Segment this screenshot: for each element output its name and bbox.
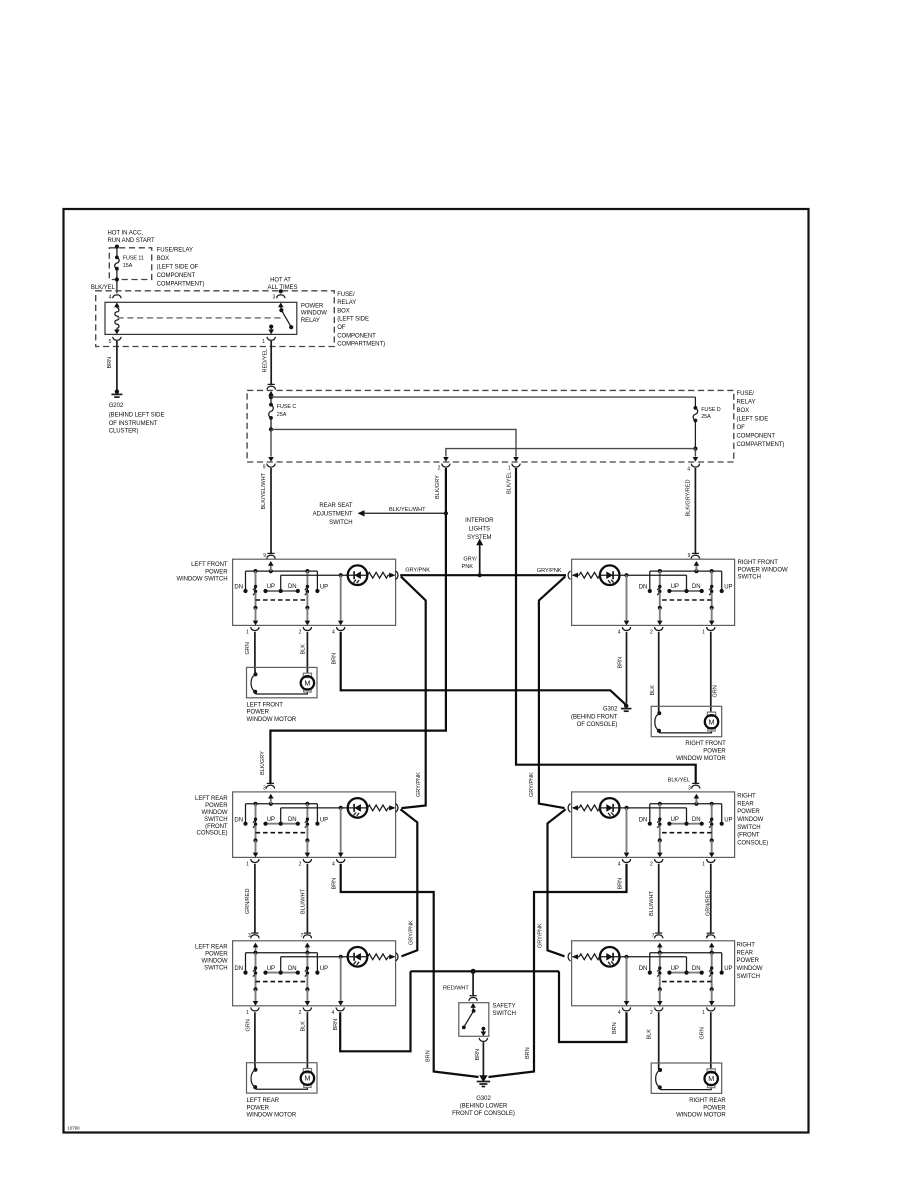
left rear power window switch lamp output	[340, 957, 342, 1002]
svg-text:RIGHT REAR: RIGHT REAR	[689, 1098, 726, 1104]
relay pin 5	[113, 337, 121, 341]
svg-text:2: 2	[299, 629, 302, 635]
chevron left rear	[396, 953, 398, 961]
left rear power window switch resistor	[368, 954, 389, 960]
right front power window switch pin arrow	[694, 569, 698, 573]
svg-text:UP: UP	[671, 817, 679, 823]
svg-text:UP: UP	[320, 817, 328, 823]
left rear power window switch pin arrows	[255, 947, 257, 953]
svg-text:4: 4	[332, 629, 335, 635]
svg-text:2: 2	[650, 1010, 653, 1016]
chevron right rear	[568, 953, 570, 961]
battery feed dot	[115, 245, 119, 249]
svg-text:INTERIOR: INTERIOR	[465, 518, 494, 524]
svg-text:GRY/PNK: GRY/PNK	[537, 568, 562, 574]
svg-text:BRN: BRN	[475, 1049, 481, 1061]
svg-text:BLK: BLK	[650, 685, 656, 696]
left front power window switch pin arrow	[269, 569, 273, 573]
svg-text:GRY/PNK: GRY/PNK	[529, 772, 535, 797]
svg-text:25A: 25A	[277, 412, 287, 418]
svg-text:POWER: POWER	[205, 803, 228, 809]
svg-text:1: 1	[702, 1010, 705, 1016]
wire GRY/PNK to left rear console switch	[401, 576, 426, 808]
wire BLK/GRY to left rear switch	[270, 468, 446, 783]
pin 1	[707, 627, 715, 631]
wire BRN rear ground bus	[411, 970, 560, 972]
wire BLK/GRY/RED to right front switch	[694, 468, 696, 553]
svg-text:4: 4	[687, 467, 690, 473]
svg-text:3: 3	[248, 933, 251, 939]
right front power window switch rocker arm 1	[710, 569, 714, 573]
wire GRN left front	[254, 632, 256, 674]
left front power window switch rocker arm 1	[253, 569, 257, 573]
svg-text:SAFETY: SAFETY	[493, 1004, 516, 1010]
wire GRN left rear	[254, 1012, 256, 1069]
svg-text:REAR: REAR	[737, 801, 754, 807]
svg-text:POWER: POWER	[737, 958, 760, 964]
svg-text:OF: OF	[737, 425, 746, 431]
svg-text:G302: G302	[476, 1096, 491, 1102]
pin 2	[303, 627, 311, 631]
svg-text:BRN: BRN	[425, 1050, 431, 1062]
svg-text:FUSE D: FUSE D	[701, 407, 721, 413]
GRY/PNK chevron left front	[396, 571, 398, 579]
svg-text:WINDOW MOTOR: WINDOW MOTOR	[676, 1113, 726, 1119]
left rear power window switch rocker arm 2	[305, 951, 309, 955]
fuse box pin 9	[268, 457, 274, 462]
wire BLU/WHT	[306, 864, 308, 933]
wire GRY/PNK illumination bus	[400, 574, 566, 576]
svg-text:LIGHTS: LIGHTS	[469, 527, 490, 533]
svg-text:1: 1	[246, 1010, 249, 1016]
wire BRN safety switch to G302	[482, 1042, 484, 1076]
svg-text:PNK: PNK	[462, 564, 474, 570]
svg-text:RIGHT: RIGHT	[737, 793, 756, 799]
pin 1	[251, 859, 259, 863]
relay coil	[116, 306, 118, 309]
fuse box feed pin	[268, 391, 274, 396]
svg-text:DN: DN	[234, 585, 243, 591]
fuse/relay box (fuse 11) dashed outline	[109, 248, 151, 280]
wire BRN right front to G302	[626, 632, 628, 704]
svg-text:SWITCH: SWITCH	[738, 575, 761, 581]
svg-text:1: 1	[262, 339, 265, 345]
svg-text:M: M	[304, 678, 310, 687]
wire BLK left front	[306, 632, 308, 674]
svg-text:M: M	[304, 1074, 310, 1083]
right rear power window switch (front console) illumination lamp	[686, 808, 688, 824]
svg-text:G202: G202	[109, 403, 124, 409]
svg-text:4: 4	[618, 629, 621, 635]
svg-text:GRY/PNK: GRY/PNK	[416, 772, 422, 797]
ground G202	[115, 389, 119, 393]
svg-text:SWITCH: SWITCH	[737, 825, 760, 831]
svg-text:COMPARTMENT): COMPARTMENT)	[157, 282, 205, 288]
svg-text:BLK/GRY/RED: BLK/GRY/RED	[686, 480, 692, 517]
relay pin 4	[113, 295, 121, 299]
left front power window switch mechanical link	[256, 599, 308, 601]
svg-text:BLK/YEL/WHT: BLK/YEL/WHT	[261, 472, 267, 509]
svg-text:(FRONT: (FRONT	[737, 833, 760, 839]
right rear power window switch pin arrows	[711, 947, 713, 953]
svg-text:DN: DN	[639, 585, 648, 591]
left front power window switch contact bus	[266, 590, 298, 592]
svg-text:ADJUSTMENT: ADJUSTMENT	[313, 512, 353, 518]
svg-text:COMPARTMENT): COMPARTMENT)	[737, 442, 785, 448]
right rear power window switch illumination lamp	[686, 957, 688, 973]
svg-text:M: M	[709, 717, 715, 726]
right rear power window switch (front console) resistor	[579, 805, 600, 811]
svg-text:WINDOW MOTOR: WINDOW MOTOR	[247, 717, 297, 723]
svg-text:25A: 25A	[701, 414, 711, 420]
svg-text:FUSE C: FUSE C	[277, 404, 297, 410]
svg-text:DN: DN	[692, 584, 701, 590]
pin 4	[622, 627, 630, 631]
right front power window switch feed bus	[650, 570, 722, 572]
left rear power window switch illumination lamp	[280, 957, 282, 973]
svg-text:LEFT REAR: LEFT REAR	[195, 796, 228, 802]
svg-text:RELAY: RELAY	[301, 318, 320, 324]
svg-text:3: 3	[706, 933, 709, 939]
ground G302 rear	[479, 1075, 488, 1082]
wire BRN right rear to ground bus	[559, 971, 627, 1042]
right front power window motor box	[651, 706, 722, 736]
relay pin 3	[277, 295, 285, 299]
svg-text:UP: UP	[320, 966, 328, 972]
svg-text:9: 9	[688, 553, 691, 559]
svg-text:POWER: POWER	[737, 809, 760, 815]
svg-text:9: 9	[263, 553, 266, 559]
fuse/relay box dashed outline	[247, 390, 734, 462]
right rear power window switch (front console) contact bus	[669, 823, 701, 825]
wire GRN right front	[710, 632, 712, 712]
svg-text:WINDOW: WINDOW	[737, 966, 763, 972]
left rear power window switch mechanical link	[256, 981, 308, 983]
svg-text:POWER: POWER	[703, 1105, 726, 1111]
svg-text:UP: UP	[724, 585, 732, 591]
pin 1	[707, 1007, 715, 1011]
svg-text:GRN: GRN	[712, 685, 718, 697]
wire BRN relay to G202	[116, 341, 118, 392]
right front power window switch illumination lamp	[686, 575, 688, 591]
svg-text:DN: DN	[639, 966, 648, 972]
svg-text:4: 4	[618, 861, 621, 867]
fuse D 25A	[694, 397, 696, 408]
svg-text:1: 1	[246, 629, 249, 635]
svg-text:7: 7	[300, 933, 303, 939]
wire BRN left rear console to G302	[341, 864, 479, 1077]
svg-text:ALL TIMES: ALL TIMES	[268, 285, 298, 291]
left front power window switch lamp output	[340, 575, 342, 621]
svg-text:RED/YEL: RED/YEL	[263, 349, 269, 373]
wire RED/WHT to safety switch	[472, 971, 474, 995]
svg-text:POWER: POWER	[247, 710, 270, 716]
left rear power window switch (front console) resistor	[368, 805, 389, 811]
left rear power window motor box	[247, 1063, 318, 1093]
svg-text:(BEHIND LEFT SIDE: (BEHIND LEFT SIDE	[109, 412, 165, 418]
pin 4	[336, 1007, 344, 1011]
svg-text:(BEHIND FRONT: (BEHIND FRONT	[571, 715, 618, 721]
right rear power window switch (front console) rocker arm 2	[658, 802, 662, 806]
svg-text:POWER: POWER	[703, 749, 726, 755]
wire fuse 11 to relay	[116, 269, 118, 294]
svg-text:HOT AT: HOT AT	[270, 277, 291, 283]
svg-text:1: 1	[702, 861, 705, 867]
svg-text:UP: UP	[671, 966, 679, 972]
wire feed to fuse 11	[116, 247, 118, 258]
svg-text:WINDOW MOTOR: WINDOW MOTOR	[676, 756, 726, 762]
wire GRY/PNK console to right rear switch	[548, 809, 566, 956]
svg-text:(FRONT: (FRONT	[205, 824, 228, 830]
svg-text:SWITCH: SWITCH	[204, 966, 227, 972]
svg-text:SWITCH: SWITCH	[737, 974, 760, 980]
svg-text:5: 5	[109, 339, 112, 345]
left front power window switch rocker arm 2	[305, 569, 309, 573]
left front power window motor box	[247, 667, 318, 697]
svg-text:BLK: BLK	[300, 644, 306, 655]
safety switch contact	[482, 1027, 486, 1031]
left front power window switch box	[233, 559, 396, 625]
right rear power window switch lamp output	[626, 957, 628, 1002]
pin 4	[337, 627, 345, 631]
svg-text:DN: DN	[288, 966, 297, 972]
right rear power window switch resistor	[579, 954, 600, 960]
svg-text:WINDOW: WINDOW	[737, 817, 763, 823]
svg-text:SWITCH: SWITCH	[493, 1011, 516, 1017]
svg-text:1: 1	[702, 629, 705, 635]
rear seat adjustment switch arrow	[361, 512, 446, 514]
right front power window switch rocker arm 2	[658, 569, 662, 573]
svg-text:1: 1	[246, 861, 249, 867]
svg-text:M: M	[708, 1074, 714, 1083]
svg-text:COMPONENT: COMPONENT	[737, 433, 776, 439]
svg-text:DN: DN	[692, 817, 701, 823]
svg-text:WINDOW SWITCH: WINDOW SWITCH	[176, 577, 227, 583]
left front power window motor armature	[303, 673, 311, 677]
svg-text:RED/WHT: RED/WHT	[443, 985, 469, 991]
svg-text:GRY/: GRY/	[463, 556, 477, 562]
svg-text:GRN: GRN	[245, 1019, 251, 1031]
svg-text:GRY/PNK: GRY/PNK	[409, 920, 415, 945]
safety switch arm	[470, 1003, 476, 1008]
svg-text:FUSE/: FUSE/	[337, 292, 355, 298]
fuse 11 15A	[115, 256, 119, 260]
svg-text:BOX: BOX	[337, 308, 350, 314]
fuse box feed rail	[271, 396, 695, 398]
svg-text:1: 1	[508, 466, 511, 472]
wire BLK/YEL/WHT to left front switch	[270, 468, 272, 553]
svg-text:BRN: BRN	[617, 657, 623, 669]
left front power window motor commutator arc	[254, 672, 258, 676]
fuse/relay box (relay) dashed outline	[96, 291, 335, 347]
pin 4	[622, 1007, 630, 1011]
svg-text:UP: UP	[267, 966, 275, 972]
fuse C 25A	[270, 397, 272, 405]
svg-text:UP: UP	[267, 817, 275, 823]
wire BLK/YEL to right rear switch	[516, 468, 696, 783]
right rear power window motor commutator arc	[658, 1068, 662, 1072]
svg-text:DN: DN	[288, 584, 297, 590]
chevron right rear console	[568, 804, 570, 812]
right rear power window switch mechanical link	[660, 981, 712, 983]
left rear power window switch rocker arm 1	[253, 951, 257, 955]
left rear power window switch (front console) mechanical link	[256, 832, 308, 834]
svg-text:UP: UP	[724, 817, 732, 823]
relay pin 3 feed dot	[279, 289, 283, 293]
svg-text:UP: UP	[724, 966, 732, 972]
wire BRN left front to G302	[341, 632, 626, 706]
svg-text:LEFT REAR: LEFT REAR	[247, 1098, 280, 1104]
svg-text:RELAY: RELAY	[337, 300, 356, 306]
svg-text:POWER: POWER	[205, 952, 228, 958]
svg-text:(LEFT SIDE OF: (LEFT SIDE OF	[157, 265, 199, 271]
fuse box pin 2	[443, 457, 449, 462]
right rear power window motor box	[651, 1063, 722, 1093]
svg-text:FUSE 11: FUSE 11	[123, 255, 144, 261]
left front power window switch illumination lamp	[280, 575, 282, 591]
pin 1	[251, 1007, 259, 1011]
svg-text:4: 4	[332, 861, 335, 867]
pin 4	[337, 859, 345, 863]
svg-text:UP: UP	[267, 584, 275, 590]
svg-text:COMPARTMENT): COMPARTMENT)	[337, 342, 385, 348]
pin 2	[655, 1007, 663, 1011]
svg-text:15A: 15A	[123, 263, 133, 269]
svg-text:POWER: POWER	[247, 1105, 270, 1111]
pin 2	[303, 1007, 311, 1011]
svg-text:BLK/YEL: BLK/YEL	[91, 285, 116, 291]
svg-text:FUSE/: FUSE/	[737, 391, 755, 397]
wire RED/YEL	[270, 341, 272, 384]
wire BLK right front	[658, 632, 660, 713]
svg-text:GRN: GRN	[245, 642, 251, 654]
svg-text:BRN: BRN	[333, 1019, 339, 1031]
wire BLK right rear	[658, 1012, 660, 1070]
svg-text:7: 7	[652, 933, 655, 939]
svg-text:OF CONSOLE): OF CONSOLE)	[577, 722, 618, 728]
right rear power window motor armature	[707, 1069, 715, 1073]
left rear power window switch feed bus	[246, 952, 318, 954]
safety switch output pin	[479, 1038, 487, 1042]
left rear power window switch (front console) feed bus	[246, 803, 318, 805]
wire GRN/RED	[254, 864, 256, 933]
right front power window motor commutator arc	[657, 711, 661, 715]
left rear power window motor armature	[303, 1069, 311, 1073]
right front power window switch lamp output	[626, 575, 628, 621]
right rear power window switch box	[572, 941, 735, 1006]
svg-text:RIGHT: RIGHT	[737, 943, 756, 949]
svg-text:BLU/WHT: BLU/WHT	[300, 889, 306, 914]
svg-text:BLK/YEL: BLK/YEL	[506, 472, 512, 494]
svg-text:CLUSTER): CLUSTER)	[109, 428, 139, 434]
left rear power window switch (front console) rocker arm 1	[253, 802, 257, 806]
svg-text:2: 2	[650, 861, 653, 867]
svg-text:LEFT FRONT: LEFT FRONT	[247, 702, 284, 708]
GRY/PNK chevron right front	[568, 571, 570, 579]
svg-text:POWER: POWER	[301, 303, 324, 309]
svg-text:(LEFT SIDE: (LEFT SIDE	[737, 416, 769, 422]
left rear power window switch (front console) pin arrow	[269, 802, 273, 806]
svg-text:CONSOLE): CONSOLE)	[197, 831, 228, 837]
pin 1	[251, 627, 259, 631]
svg-text:BRN: BRN	[107, 357, 113, 369]
fuse D output rail	[694, 421, 696, 449]
svg-text:COMPONENT: COMPONENT	[337, 333, 376, 339]
left front power window switch resistor	[368, 572, 389, 578]
svg-text:WINDOW: WINDOW	[301, 311, 327, 317]
right rear power window switch (front console) feed bus	[650, 803, 722, 805]
svg-text:UP: UP	[671, 584, 679, 590]
svg-text:COMPONENT: COMPONENT	[157, 273, 196, 279]
svg-text:10790: 10790	[68, 1126, 81, 1131]
svg-text:(BEHIND LOWER: (BEHIND LOWER	[460, 1104, 508, 1110]
ground G302 front	[624, 704, 628, 708]
wire BRN right rear console to G302	[489, 864, 627, 1077]
right rear power window switch (front console) lamp output	[626, 808, 628, 853]
svg-text:GRY/PNK: GRY/PNK	[405, 567, 430, 573]
wire GRN right rear	[710, 1012, 712, 1069]
svg-text:OF: OF	[337, 325, 346, 331]
svg-text:DN: DN	[288, 817, 297, 823]
svg-text:BRN: BRN	[525, 1047, 531, 1059]
right rear power window switch rocker arm 1	[710, 951, 714, 955]
wire GRN/RED right	[710, 864, 712, 933]
left rear power window motor commutator arc	[254, 1068, 258, 1072]
svg-text:3: 3	[263, 786, 266, 792]
svg-text:BLK/GRY: BLK/GRY	[260, 751, 266, 775]
page border frame	[64, 209, 809, 1133]
svg-text:CONSOLE): CONSOLE)	[737, 841, 768, 847]
svg-text:FUSE/RELAY: FUSE/RELAY	[157, 248, 193, 254]
left rear power window switch (front console) contact bus	[266, 823, 298, 825]
svg-text:DN: DN	[234, 817, 243, 823]
svg-text:BRN: BRN	[617, 878, 623, 890]
svg-text:LEFT FRONT: LEFT FRONT	[191, 562, 228, 568]
right rear power window switch rocker arm 2	[658, 951, 662, 955]
svg-text:BRN: BRN	[332, 653, 338, 665]
svg-text:POWER WINDOW: POWER WINDOW	[738, 567, 788, 573]
right rear power window switch (front console) mechanical link	[660, 832, 712, 834]
relay pin 1	[267, 337, 275, 341]
left front power window switch feed bus	[246, 570, 318, 572]
svg-text:3: 3	[688, 786, 691, 792]
relay link dashed	[118, 317, 282, 319]
pin 4	[622, 859, 630, 863]
svg-text:BRN: BRN	[332, 878, 338, 890]
relay contact to pin 1	[269, 325, 273, 329]
right front power window switch box	[572, 559, 735, 625]
right rear power window switch feed bus	[650, 952, 722, 954]
right front power window switch resistor	[579, 572, 600, 578]
svg-text:GRN/RED: GRN/RED	[705, 891, 711, 916]
left rear power window switch box	[233, 941, 396, 1006]
left rear power window switch contact bus	[266, 972, 298, 974]
svg-text:GRN/RED: GRN/RED	[245, 889, 251, 914]
svg-text:(LEFT SIDE: (LEFT SIDE	[337, 317, 369, 323]
svg-text:GRN: GRN	[700, 1027, 706, 1039]
pin 1	[707, 859, 715, 863]
svg-text:LEFT REAR: LEFT REAR	[195, 945, 228, 951]
pin 2	[655, 859, 663, 863]
svg-text:2: 2	[650, 629, 653, 635]
svg-text:RELAY: RELAY	[737, 399, 756, 405]
svg-text:BOX: BOX	[737, 408, 750, 414]
interior lights arrow	[476, 539, 483, 546]
fuse C output rail	[270, 418, 272, 430]
svg-text:WINDOW: WINDOW	[201, 810, 227, 816]
chevron left rear console	[396, 804, 398, 812]
left rear power window switch (front console) rocker arm 2	[305, 802, 309, 806]
